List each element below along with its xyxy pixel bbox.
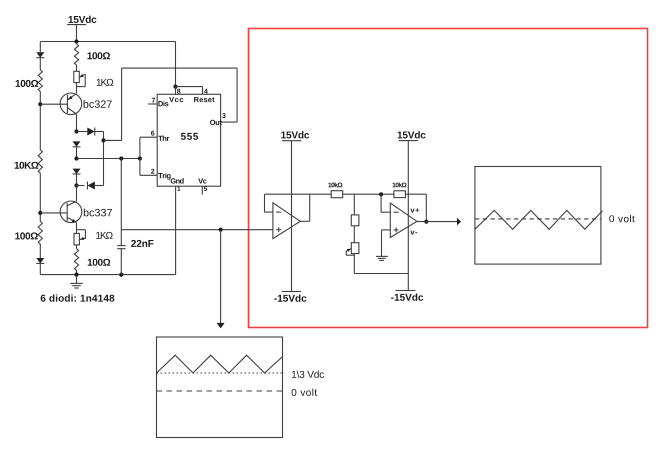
scope display box (output) xyxy=(475,167,601,265)
wire inverting input xyxy=(381,194,390,212)
pin label Trig xyxy=(158,173,170,180)
label 100&#937; (top center) xyxy=(87,52,110,59)
wire op-amp U3 supply column xyxy=(407,141,409,291)
node summing junction xyxy=(379,192,383,196)
wire xyxy=(39,173,41,221)
label 1K&#937; (P2) xyxy=(96,232,113,239)
arrow to scope xyxy=(457,218,461,226)
wire bc327 collector xyxy=(76,114,78,131)
node ground rail / resistor column xyxy=(74,273,78,277)
label 1\3 Vdc xyxy=(292,371,324,378)
node junction top rail xyxy=(74,39,78,43)
wire +15V to pin 8 xyxy=(175,42,177,87)
resistor 100&#937; (left lower) xyxy=(38,222,42,245)
wire pin 7 stub xyxy=(148,103,157,105)
red highlight box xyxy=(249,29,648,328)
wire xyxy=(76,147,78,159)
pin label Reset xyxy=(194,97,214,102)
resistor 10K&#937; (left middle) xyxy=(38,150,42,173)
trimmer P3 offset xyxy=(346,243,359,256)
pin label Thr xyxy=(158,135,169,140)
label 100&#937; (left lower) xyxy=(15,232,38,239)
power -15Vdc supply symbol (op-amp U3) xyxy=(391,291,423,301)
resistor 100&#937; (bottom center) xyxy=(74,249,78,271)
diode D2 1n4148 (left bottom, down) xyxy=(36,258,44,263)
label v- xyxy=(410,231,417,235)
resistor R6 10k&#937; feedback box xyxy=(394,191,406,198)
diode D3 1n4148 (points right) xyxy=(87,128,95,136)
label 22nF xyxy=(131,240,153,247)
wire xyxy=(353,226,355,243)
pin 8 number xyxy=(177,89,180,94)
wire pin 2 stub xyxy=(140,174,157,176)
power +15Vdc supply symbol (op-amp U3) xyxy=(398,131,426,140)
dashed zero line (right scope) xyxy=(475,218,601,220)
wire top +15V rail xyxy=(40,41,175,43)
wire xyxy=(39,58,41,70)
op 555 IC body U1 xyxy=(157,94,220,186)
trimmer P1 1K&#937; (emitter bc327) xyxy=(74,71,85,86)
node feedback junction xyxy=(101,138,105,142)
wire xyxy=(343,193,394,195)
pin label Gnd xyxy=(171,178,184,184)
op-amp U2 voltage follower xyxy=(273,203,300,239)
node scope tap junction xyxy=(219,228,223,232)
capacitor C1 22nF xyxy=(117,246,126,249)
node bc327 collector junction xyxy=(74,129,78,133)
resistor R5 box xyxy=(351,215,359,226)
wire pin 3 out stub xyxy=(221,121,238,123)
resistor 100&#937; (left upper) xyxy=(38,70,42,91)
wire pin 5 stub xyxy=(201,186,203,194)
wire xyxy=(39,263,41,274)
wire left column top xyxy=(39,42,41,53)
wire offset branch bottom xyxy=(354,254,408,274)
wire xyxy=(39,91,41,150)
ground symbol (left section) xyxy=(70,275,82,288)
wire xyxy=(39,244,41,258)
dotted 1/3Vdc line xyxy=(157,372,285,374)
op-amp U3 xyxy=(390,203,417,238)
wire offset branch xyxy=(353,194,355,215)
wire op-amp U2 supply column xyxy=(291,141,293,292)
wire xyxy=(95,185,104,187)
resistor R4 10k&#937; box xyxy=(331,191,343,198)
wire xyxy=(77,131,88,133)
node ground rail / cap column xyxy=(119,273,123,277)
node output junction xyxy=(424,220,428,224)
wire output xyxy=(417,221,457,223)
node thr/trig bracket junction xyxy=(138,156,142,160)
wire triangle signal to opamp1 xyxy=(121,229,273,231)
pin 4 number xyxy=(204,89,208,94)
power +15Vdc supply symbol (left) xyxy=(67,16,96,42)
wire xyxy=(76,83,78,94)
diode D4 1n4148 (down, upper) xyxy=(73,141,81,146)
node timing node xyxy=(74,156,78,160)
node bc327 base junction xyxy=(38,102,42,106)
pin label Vc xyxy=(198,178,206,183)
diode D6 1n4148 (points left) xyxy=(87,182,95,190)
wire bottom ground rail xyxy=(40,274,175,276)
wire cap column lower xyxy=(120,249,122,275)
wire 555 out feedback loop xyxy=(104,68,238,140)
wire thr-trig bracket xyxy=(139,137,141,175)
wire xyxy=(76,245,78,249)
label 100&#937; (bottom center) xyxy=(88,259,111,266)
label 10k&#937; (R6) xyxy=(393,182,407,187)
pin label Dis xyxy=(158,101,168,107)
dashed zero line (bottom scope) xyxy=(157,390,284,392)
pin 6 number xyxy=(151,131,154,136)
wire node row xyxy=(77,158,140,160)
node cap column junction xyxy=(119,156,123,160)
wire pin 6 stub xyxy=(140,136,157,138)
trimmer P2 1K&#937; (emitter bc337) xyxy=(74,223,85,245)
wire xyxy=(95,132,104,186)
label 1K&#937; (P1) xyxy=(97,79,114,86)
resistor 100&#937; (top center) xyxy=(74,44,78,65)
triangle waveform (bottom scope) xyxy=(157,355,283,373)
label 0 volt (right scope) xyxy=(609,215,634,222)
pin 1 number xyxy=(177,186,180,190)
label bc337 xyxy=(84,209,112,217)
pin label Out xyxy=(210,120,222,125)
wire op-amp U2 output xyxy=(300,194,309,221)
diode D1 1n4148 (left top, down) xyxy=(36,52,44,57)
label 10K&#937; xyxy=(15,162,39,169)
pin 2 number xyxy=(151,169,154,174)
node bc337 base junction xyxy=(38,211,42,215)
transistor Q1 bc327 (PNP) xyxy=(40,93,81,115)
pin 5 number xyxy=(204,186,207,191)
power -15Vdc supply symbol (op-amp U2) xyxy=(274,292,306,302)
diode D5 1n4148 (down, lower) xyxy=(73,169,81,174)
wire noninverting input xyxy=(382,230,391,256)
label bc327 xyxy=(84,100,112,108)
arrow into bottom scope xyxy=(217,323,225,329)
pin 7 number xyxy=(152,98,155,103)
ground symbol (op-amp U3 +input) xyxy=(376,256,388,260)
wire pin 1 gnd stub xyxy=(175,186,177,274)
power +15Vdc supply symbol (op-amp U2) xyxy=(281,131,309,141)
pin label Vcc xyxy=(169,97,183,102)
transistor Q2 bc337 (NPN) xyxy=(40,201,82,223)
label 555 xyxy=(181,133,198,140)
wire pin8-pin4 link xyxy=(176,87,203,95)
triangle waveform (right scope) xyxy=(475,210,603,229)
wire scope drop xyxy=(220,230,222,324)
scope display box (555 node) xyxy=(157,337,283,438)
wire xyxy=(76,174,78,186)
label 0 volt (bottom scope) xyxy=(292,389,317,396)
wire feedback xyxy=(405,194,426,221)
label 100&#937; (left upper) xyxy=(16,80,39,87)
node bc337 collector junction xyxy=(74,183,78,187)
wire xyxy=(76,270,78,274)
node pin8 junction xyxy=(173,85,177,89)
pin 3 number xyxy=(222,113,225,118)
wire xyxy=(76,65,78,71)
wire pin 8 stub xyxy=(175,87,177,95)
wire xyxy=(77,185,85,187)
wire op-amp U2 feedback loop xyxy=(265,194,332,212)
label 6 diodi: 1n4148 xyxy=(41,294,115,301)
wire cap column upper xyxy=(120,159,122,246)
label 10k&#937; (R4) xyxy=(328,182,342,187)
label v+ xyxy=(410,208,419,212)
wire bc337 collector xyxy=(76,186,78,201)
